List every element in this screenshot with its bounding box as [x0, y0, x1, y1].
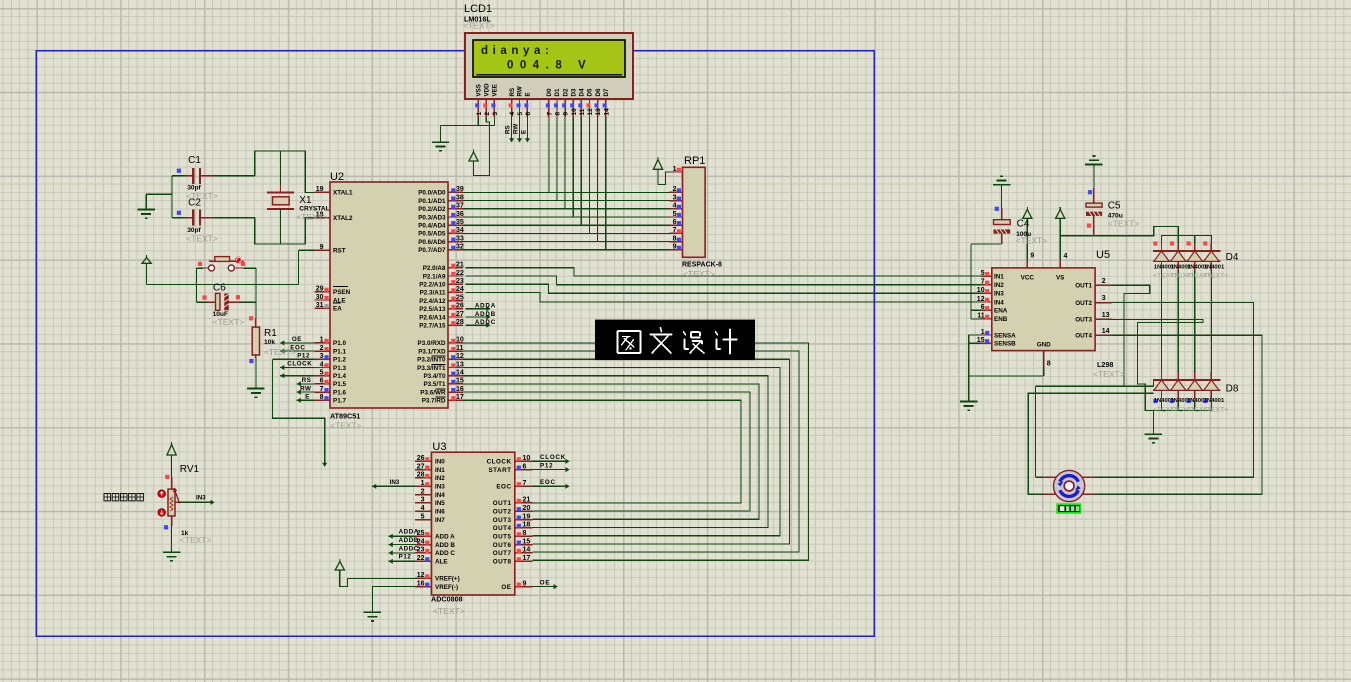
svg-text:IN4: IN4	[435, 492, 445, 499]
svg-text:VCC: VCC	[1021, 275, 1035, 282]
svg-text:<TEXT>: <TEXT>	[1203, 273, 1228, 280]
svg-text:30: 30	[316, 294, 324, 301]
svg-text:SENSA: SENSA	[994, 332, 1016, 339]
svg-text:8: 8	[1047, 361, 1051, 368]
svg-text:27: 27	[417, 463, 425, 470]
svg-text:IN3: IN3	[994, 291, 1004, 298]
svg-text:24: 24	[456, 286, 464, 293]
svg-text:P3.2/INT0: P3.2/INT0	[417, 357, 446, 364]
svg-text:1: 1	[421, 480, 425, 487]
svg-text:4: 4	[421, 505, 425, 512]
svg-text:16: 16	[456, 386, 464, 393]
svg-text:4: 4	[673, 203, 677, 210]
svg-text:26: 26	[417, 455, 425, 462]
svg-text:22: 22	[417, 555, 425, 562]
svg-text:12: 12	[587, 108, 594, 116]
svg-text:P0.7/AD7: P0.7/AD7	[418, 247, 446, 254]
svg-text:7: 7	[523, 480, 527, 487]
svg-text:P0.2/AD2: P0.2/AD2	[418, 206, 446, 213]
svg-text:ADDC: ADDC	[475, 319, 496, 326]
svg-text:11: 11	[579, 108, 586, 115]
svg-text:7: 7	[320, 386, 324, 393]
svg-text:OUT3: OUT3	[493, 517, 512, 524]
svg-text:29: 29	[316, 286, 324, 293]
svg-text:D4: D4	[579, 88, 586, 96]
svg-text:36: 36	[456, 211, 464, 218]
svg-text:2: 2	[673, 186, 677, 193]
svg-text:<TEXT>: <TEXT>	[683, 269, 715, 279]
svg-text:OUT6: OUT6	[493, 542, 512, 549]
svg-text:3: 3	[492, 112, 499, 116]
svg-text:IN1: IN1	[994, 273, 1004, 280]
svg-text:D6: D6	[595, 88, 602, 96]
svg-text:P0.4/AD4: P0.4/AD4	[418, 223, 446, 230]
svg-text:17: 17	[456, 394, 464, 401]
svg-text:OUT1: OUT1	[1075, 283, 1092, 290]
svg-text:SENSB: SENSB	[994, 341, 1016, 348]
svg-text:1: 1	[476, 112, 483, 116]
svg-text:<TEXT>: <TEXT>	[463, 21, 495, 31]
svg-text:D8: D8	[1226, 384, 1239, 395]
svg-text:P1.1: P1.1	[333, 348, 346, 355]
svg-text:23: 23	[456, 278, 464, 285]
svg-text:ADD C: ADD C	[435, 550, 455, 557]
svg-text:4: 4	[1064, 253, 1068, 260]
svg-text:10: 10	[523, 455, 531, 462]
svg-text:19: 19	[316, 186, 324, 193]
svg-text:ADD A: ADD A	[435, 534, 455, 541]
svg-text:7: 7	[547, 112, 554, 116]
svg-text:VS: VS	[1056, 275, 1064, 282]
svg-text:D2: D2	[562, 88, 569, 96]
svg-text:14: 14	[1102, 328, 1110, 335]
svg-text:CLOCK: CLOCK	[487, 459, 512, 466]
svg-text:15: 15	[977, 337, 985, 344]
svg-text:IN7: IN7	[435, 517, 445, 524]
svg-text:P2.2/A10: P2.2/A10	[419, 282, 446, 289]
svg-text:D0: D0	[546, 88, 553, 96]
svg-text:R1: R1	[264, 328, 277, 339]
svg-text:1: 1	[981, 329, 985, 336]
svg-text:RW: RW	[300, 385, 311, 392]
svg-text:ADC0808: ADC0808	[431, 595, 463, 604]
svg-text:2: 2	[421, 488, 425, 495]
svg-text:OE: OE	[292, 336, 302, 343]
svg-text:P1.7: P1.7	[333, 398, 346, 405]
svg-text:7: 7	[981, 279, 985, 286]
svg-text:ADDB: ADDB	[475, 311, 496, 318]
svg-text:OUT1: OUT1	[493, 500, 512, 507]
svg-text:6: 6	[525, 112, 532, 116]
svg-text:10: 10	[977, 287, 985, 294]
svg-text:U5: U5	[1096, 249, 1110, 261]
svg-text:L298: L298	[1097, 360, 1113, 369]
svg-text:RS: RS	[509, 88, 516, 97]
svg-text:RV1: RV1	[180, 464, 200, 475]
svg-text:E: E	[305, 394, 310, 401]
svg-text:<TEXT>: <TEXT>	[1108, 219, 1140, 229]
svg-text:IN6: IN6	[435, 509, 445, 516]
svg-text:P2.4/A12: P2.4/A12	[419, 298, 446, 305]
svg-text:RW: RW	[513, 124, 520, 134]
svg-text:P2.1/A9: P2.1/A9	[423, 273, 446, 280]
svg-text:004.8 V: 004.8 V	[507, 59, 592, 71]
svg-text:P12: P12	[399, 554, 412, 561]
svg-text:10k: 10k	[264, 339, 275, 346]
svg-text:11: 11	[977, 313, 985, 320]
svg-text:1N4001: 1N4001	[1204, 398, 1225, 404]
svg-text:C2: C2	[188, 198, 201, 209]
svg-text:23: 23	[417, 547, 425, 554]
svg-text:OE: OE	[540, 579, 551, 586]
svg-text:E: E	[525, 92, 532, 96]
svg-text:D4: D4	[1226, 252, 1239, 263]
svg-text:IN2: IN2	[994, 282, 1004, 289]
svg-text:RW: RW	[517, 86, 524, 96]
svg-text:31: 31	[316, 302, 324, 309]
svg-text:P1.0: P1.0	[333, 340, 346, 347]
svg-text:P2.7/A15: P2.7/A15	[419, 323, 446, 330]
svg-text:XTAL1: XTAL1	[333, 190, 353, 197]
svg-text:5: 5	[517, 112, 524, 116]
svg-text:12: 12	[456, 353, 464, 360]
svg-text:ALE: ALE	[435, 559, 448, 566]
svg-text:1: 1	[673, 166, 677, 173]
svg-text:P0.1/AD1: P0.1/AD1	[418, 198, 446, 205]
svg-text:P3.6/WR: P3.6/WR	[420, 389, 446, 396]
svg-text:IN0: IN0	[435, 459, 445, 466]
svg-text:AT89C51: AT89C51	[330, 412, 360, 421]
svg-text:10: 10	[571, 108, 578, 116]
svg-text:2: 2	[320, 345, 324, 352]
svg-text:37: 37	[456, 203, 464, 210]
svg-text:7: 7	[673, 227, 677, 234]
svg-text:<TEXT>: <TEXT>	[1016, 235, 1048, 245]
svg-text:P3.1/TXD: P3.1/TXD	[418, 348, 446, 355]
svg-text:5: 5	[320, 370, 324, 377]
svg-text:<TEXT>: <TEXT>	[180, 535, 212, 545]
svg-text:13: 13	[1102, 312, 1110, 319]
svg-text:P1.5: P1.5	[333, 381, 346, 388]
svg-text:5: 5	[421, 513, 425, 520]
svg-text:P1.3: P1.3	[333, 365, 346, 372]
svg-text:15: 15	[456, 378, 464, 385]
svg-text:25: 25	[456, 294, 464, 301]
svg-text:6: 6	[981, 304, 985, 311]
svg-text:OUT8: OUT8	[493, 559, 512, 566]
svg-text:RST: RST	[333, 248, 346, 255]
svg-text:VREF(-): VREF(-)	[435, 584, 458, 591]
svg-text:C5: C5	[1108, 201, 1121, 212]
svg-text:C4: C4	[1017, 219, 1030, 230]
svg-text:8: 8	[523, 530, 527, 537]
svg-text:IN2: IN2	[435, 475, 445, 482]
svg-text:X1: X1	[299, 195, 312, 206]
svg-text:6: 6	[523, 463, 527, 470]
svg-text:12: 12	[977, 296, 985, 303]
svg-text:P2.0/A8: P2.0/A8	[423, 265, 446, 272]
svg-text:OUT2: OUT2	[493, 509, 512, 516]
svg-text:RS: RS	[505, 125, 512, 134]
svg-text:13: 13	[595, 108, 602, 116]
svg-text:32: 32	[456, 244, 464, 251]
svg-text:P0.5/AD5: P0.5/AD5	[418, 231, 446, 238]
svg-text:14: 14	[523, 547, 531, 554]
svg-text:CLOCK: CLOCK	[540, 454, 566, 461]
svg-text:16: 16	[417, 580, 425, 587]
svg-text:8: 8	[673, 235, 677, 242]
svg-text:14: 14	[603, 108, 610, 116]
svg-text:9: 9	[523, 580, 527, 587]
svg-text:IN1: IN1	[435, 467, 445, 474]
svg-text:11: 11	[456, 345, 464, 352]
svg-text:P0.0/AD0: P0.0/AD0	[418, 190, 446, 197]
svg-text:D7: D7	[603, 88, 610, 96]
svg-text:U3: U3	[432, 441, 446, 453]
svg-text:P2.3/A11: P2.3/A11	[420, 290, 446, 297]
svg-text:3: 3	[320, 353, 324, 360]
svg-text:D3: D3	[570, 88, 577, 96]
svg-text:27: 27	[456, 311, 464, 318]
svg-text:15: 15	[523, 538, 531, 545]
svg-text:34: 34	[456, 227, 464, 234]
svg-text:VSS: VSS	[475, 84, 482, 96]
svg-text:4: 4	[509, 112, 516, 116]
svg-text:<TEXT>: <TEXT>	[296, 212, 328, 222]
svg-text:35: 35	[456, 219, 464, 226]
svg-text:P0.6/AD6: P0.6/AD6	[418, 239, 446, 246]
svg-text:<TEXT>: <TEXT>	[186, 233, 218, 243]
svg-text:P3.5/T1: P3.5/T1	[423, 381, 446, 388]
svg-text:<TEXT>: <TEXT>	[1093, 369, 1125, 379]
svg-text:2: 2	[484, 112, 491, 116]
svg-text:38: 38	[456, 194, 464, 201]
svg-text:12: 12	[417, 572, 425, 579]
svg-text:ENA: ENA	[994, 308, 1008, 315]
svg-text:P3.7/RD: P3.7/RD	[422, 398, 446, 405]
svg-text:4: 4	[320, 361, 324, 368]
svg-text:IN3: IN3	[435, 484, 445, 491]
svg-text:8: 8	[555, 112, 562, 116]
svg-text:14: 14	[456, 370, 464, 377]
svg-text:28: 28	[417, 472, 425, 479]
svg-text:<TEXT>: <TEXT>	[433, 606, 465, 616]
svg-text:5: 5	[981, 270, 985, 277]
svg-text:P3.3/INT1: P3.3/INT1	[417, 365, 446, 372]
svg-text:33: 33	[456, 235, 464, 242]
svg-text:3: 3	[421, 497, 425, 504]
svg-text:ADDA: ADDA	[475, 303, 496, 310]
svg-text:ENB: ENB	[994, 316, 1008, 323]
svg-text:XTAL2: XTAL2	[333, 215, 353, 222]
svg-text:9: 9	[673, 244, 677, 251]
svg-text:6: 6	[320, 378, 324, 385]
svg-text:dianya:: dianya:	[481, 45, 553, 57]
svg-text:5: 5	[673, 211, 677, 218]
svg-text:RP1: RP1	[684, 155, 705, 167]
svg-text:18: 18	[523, 522, 531, 529]
svg-text:P2.5/A13: P2.5/A13	[419, 306, 446, 313]
svg-text:RESPACK-8: RESPACK-8	[682, 262, 722, 269]
svg-text:25: 25	[417, 530, 425, 537]
svg-text:10: 10	[456, 337, 464, 344]
svg-text:P12: P12	[540, 462, 553, 469]
svg-text:24: 24	[417, 538, 425, 545]
svg-text:GND: GND	[1037, 342, 1051, 349]
svg-text:OUT7: OUT7	[493, 550, 512, 557]
svg-text:21: 21	[523, 497, 531, 504]
svg-text:OUT2: OUT2	[1075, 300, 1092, 307]
svg-text:IN4: IN4	[994, 299, 1004, 306]
svg-text:P2.6/A14: P2.6/A14	[419, 314, 446, 321]
svg-text:EOC: EOC	[540, 479, 556, 486]
svg-text:21: 21	[456, 262, 464, 269]
svg-text:<TEXT>: <TEXT>	[330, 421, 362, 431]
svg-text:P1.2: P1.2	[333, 357, 346, 364]
svg-text:20: 20	[523, 505, 531, 512]
svg-text:<TEXT>: <TEXT>	[213, 317, 245, 327]
svg-text:9: 9	[320, 244, 324, 251]
svg-text:P12: P12	[297, 353, 310, 360]
svg-text:U2: U2	[330, 171, 344, 183]
svg-text:LCD1: LCD1	[464, 3, 492, 15]
svg-text:D1: D1	[554, 88, 561, 96]
svg-text:19: 19	[523, 513, 531, 520]
svg-text:ADD B: ADD B	[435, 542, 455, 549]
svg-text:OE: OE	[501, 584, 511, 591]
svg-text:1: 1	[320, 337, 324, 344]
svg-text:VEE: VEE	[492, 84, 499, 96]
svg-text:E: E	[520, 130, 527, 134]
svg-text:C1: C1	[188, 155, 201, 166]
svg-text:CLOCK: CLOCK	[287, 361, 312, 368]
svg-text:START: START	[488, 467, 511, 474]
svg-text:28: 28	[456, 319, 464, 326]
svg-text:IN5: IN5	[435, 500, 445, 507]
svg-text:22: 22	[456, 270, 464, 277]
svg-text:<TEXT>: <TEXT>	[1203, 406, 1228, 413]
svg-text:3: 3	[1102, 295, 1106, 302]
svg-text:39: 39	[456, 186, 464, 193]
svg-text:3: 3	[673, 194, 677, 201]
svg-text:C6: C6	[213, 283, 226, 294]
svg-text:OUT5: OUT5	[493, 534, 512, 541]
svg-text:VDD: VDD	[484, 83, 491, 97]
svg-text:2: 2	[1102, 278, 1106, 285]
svg-text:P0.3/AD3: P0.3/AD3	[418, 214, 446, 221]
svg-text:P3.0/RXD: P3.0/RXD	[418, 340, 446, 347]
svg-text:D5: D5	[587, 88, 594, 96]
svg-text:1N4001: 1N4001	[1204, 265, 1225, 271]
svg-text:PSEN: PSEN	[333, 289, 351, 296]
svg-text:IN3: IN3	[196, 494, 206, 501]
svg-text:P3.4/T0: P3.4/T0	[423, 373, 446, 380]
svg-text:VREF(+): VREF(+)	[435, 576, 460, 583]
svg-text:8: 8	[320, 394, 324, 401]
svg-text:<TEXT>: <TEXT>	[264, 347, 296, 357]
svg-text:IN3: IN3	[390, 479, 400, 486]
svg-text:OUT4: OUT4	[1075, 333, 1092, 340]
svg-text:17: 17	[523, 555, 531, 562]
svg-text:9: 9	[1030, 253, 1034, 260]
svg-text:OUT3: OUT3	[1075, 317, 1092, 324]
svg-text:9: 9	[563, 112, 570, 116]
svg-text:13: 13	[456, 361, 464, 368]
svg-text:6: 6	[673, 219, 677, 226]
svg-text:RS: RS	[302, 377, 312, 384]
svg-text:26: 26	[456, 303, 464, 310]
svg-text:EOC: EOC	[496, 484, 511, 491]
svg-text:P1.6: P1.6	[333, 389, 346, 396]
svg-text:EA: EA	[333, 306, 342, 313]
svg-text:OUT4: OUT4	[493, 525, 512, 532]
svg-text:P1.4: P1.4	[333, 373, 346, 380]
